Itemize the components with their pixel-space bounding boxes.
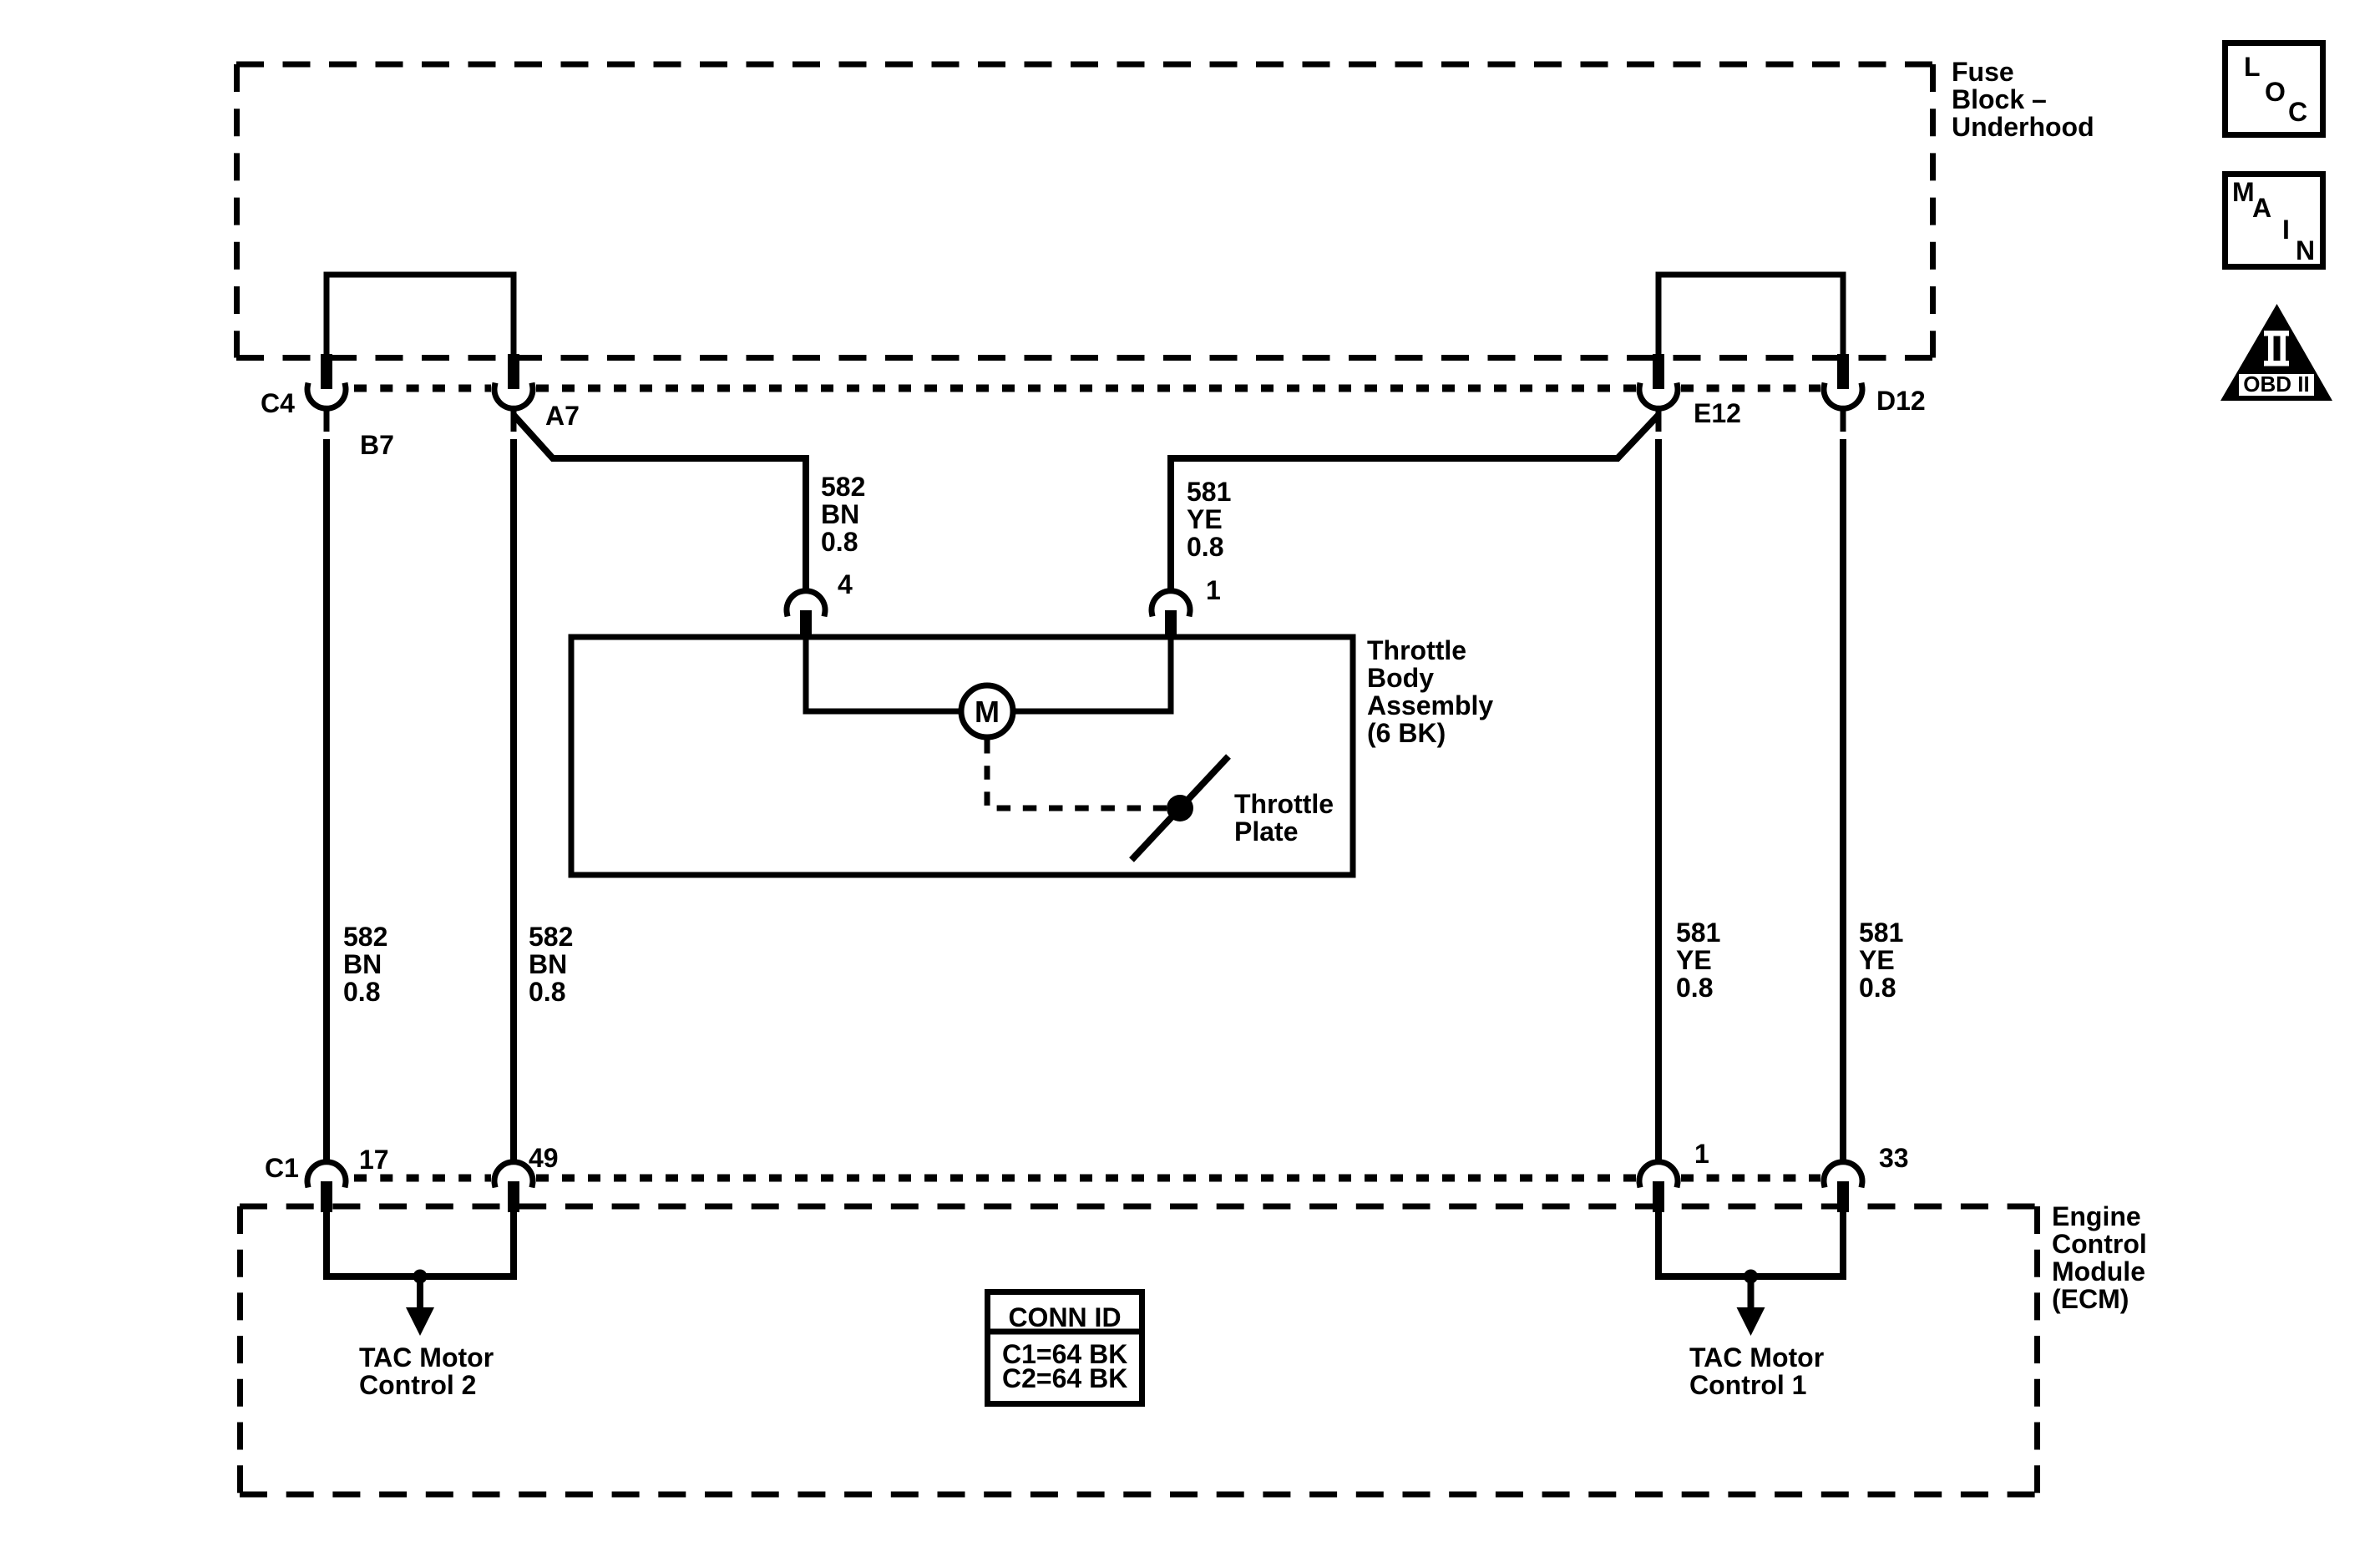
ECM dashed box [240, 1206, 2038, 1494]
svg-text:0.8: 0.8 [821, 527, 858, 557]
svg-text:581: 581 [1187, 477, 1231, 507]
pin D12 [1824, 354, 1862, 432]
wire label 581 YE 0.8 [1859, 917, 1903, 1003]
svg-text:0.8: 0.8 [529, 977, 565, 1007]
arrow to TAC Motor Control 1 [1737, 1276, 1765, 1336]
wire 582 BN branch A7 to throttle pin 4 [514, 415, 806, 593]
svg-text:N: N [2296, 235, 2315, 265]
pin B7 [307, 354, 346, 432]
fuse connector box left [327, 275, 514, 358]
ECM internal wires left junction [327, 1212, 514, 1276]
wire label 582 BN 0.8 [821, 472, 865, 557]
LOC icon [2226, 43, 2323, 135]
svg-text:4: 4 [838, 569, 853, 599]
svg-text:582: 582 [529, 922, 573, 952]
svg-text:(6 BK): (6 BK) [1367, 718, 1446, 748]
wire label 581 YE 0.8 [1187, 477, 1231, 562]
svg-text:C: C [2288, 97, 2307, 127]
svg-text:17: 17 [359, 1145, 389, 1175]
svg-text:A7: A7 [545, 401, 580, 431]
wire inside throttle body to motor [806, 639, 959, 711]
junction dot left [413, 1270, 428, 1284]
svg-text:I: I [2282, 215, 2290, 245]
svg-text:Control 1: Control 1 [1689, 1370, 1806, 1400]
OBD II icon [2220, 304, 2332, 401]
svg-text:TAC Motor: TAC Motor [1689, 1342, 1824, 1372]
arrow to TAC Motor Control 2 [406, 1276, 434, 1336]
motor linkage dashed line [987, 740, 1167, 808]
svg-text:0.8: 0.8 [1676, 973, 1713, 1003]
svg-text:B7: B7 [360, 430, 394, 460]
svg-text:Throttle: Throttle [1367, 635, 1466, 665]
svg-text:CONN ID: CONN ID [1008, 1302, 1121, 1332]
wire label 582 BN 0.8 [529, 922, 573, 1007]
wire label 582 BN 0.8 [343, 922, 387, 1007]
svg-text:Assembly: Assembly [1367, 690, 1493, 720]
wire 582 BN from B7 to ECM pin 17 [323, 439, 330, 1163]
MAIN icon [2226, 174, 2323, 267]
ECM pin 1 [1639, 1162, 1678, 1212]
svg-text:Control 2: Control 2 [359, 1370, 476, 1400]
ECM pin 33 [1824, 1162, 1862, 1212]
svg-text:BN: BN [821, 499, 859, 529]
svg-text:582: 582 [821, 472, 865, 502]
label Engine Control Module (ECM) [2052, 1201, 2147, 1314]
svg-text:BN: BN [343, 949, 382, 979]
svg-text:OBD II: OBD II [2243, 372, 2309, 397]
svg-text:O: O [2265, 77, 2286, 107]
svg-text:Fuse: Fuse [1952, 57, 2014, 87]
svg-text:581: 581 [1859, 917, 1903, 948]
svg-text:0.8: 0.8 [1187, 532, 1223, 562]
svg-text:Block –: Block – [1952, 84, 2047, 114]
throttle pin 4 [787, 591, 825, 639]
svg-text:Body: Body [1367, 663, 1434, 693]
svg-text:(ECM): (ECM) [2052, 1284, 2129, 1314]
wire label 581 YE 0.8 [1676, 917, 1720, 1003]
label Throttle Body Assembly (6 BK) [1367, 635, 1493, 748]
fuse connector box right [1658, 275, 1843, 358]
ECM internal wires right junction [1658, 1212, 1843, 1276]
svg-text:Engine: Engine [2052, 1201, 2141, 1231]
svg-text:C2=64 BK: C2=64 BK [1002, 1363, 1127, 1393]
svg-text:TAC Motor: TAC Motor [359, 1342, 494, 1372]
svg-text:Underhood: Underhood [1952, 112, 2094, 142]
svg-text:E12: E12 [1694, 398, 1741, 428]
svg-text:YE: YE [1676, 945, 1712, 975]
wire 581 YE from D12 to ECM pin 33 [1840, 439, 1846, 1163]
svg-text:M: M [2232, 177, 2255, 207]
svg-text:C4: C4 [261, 388, 295, 418]
wire 581 YE from E12 to ECM pin 1 [1655, 439, 1662, 1163]
svg-text:BN: BN [529, 949, 567, 979]
motor M [961, 685, 1013, 737]
CONN ID table [985, 1292, 1145, 1404]
svg-text:Control: Control [2052, 1229, 2147, 1259]
svg-text:D12: D12 [1876, 386, 1926, 416]
svg-text:0.8: 0.8 [343, 977, 380, 1007]
svg-text:A: A [2252, 193, 2271, 223]
connector C4 dotted line [354, 385, 1820, 392]
wire 582 BN from A7 to ECM pin 49 [510, 439, 517, 1163]
svg-text:581: 581 [1676, 917, 1720, 948]
ECM pin 17 [307, 1162, 346, 1212]
ECM pin 49 [494, 1162, 533, 1212]
svg-text:YE: YE [1859, 945, 1895, 975]
pin E12 [1639, 354, 1678, 432]
svg-text:YE: YE [1187, 504, 1223, 534]
junction dot right [1744, 1270, 1758, 1284]
svg-text:Module: Module [2052, 1256, 2145, 1287]
wire 581 YE branch E12 to throttle pin 1 [1171, 415, 1658, 593]
svg-text:1: 1 [1694, 1139, 1709, 1169]
svg-text:Throttle: Throttle [1234, 789, 1334, 819]
fuse block dashed box [236, 64, 1933, 358]
svg-text:C1: C1 [265, 1153, 299, 1183]
throttle plate [1132, 756, 1228, 860]
svg-text:Plate: Plate [1234, 816, 1298, 847]
label TAC Motor Control 1 [1689, 1342, 1824, 1400]
svg-text:49: 49 [529, 1143, 559, 1173]
svg-text:L: L [2244, 52, 2261, 82]
connector C1 dotted line [354, 1175, 1820, 1182]
svg-text:1: 1 [1206, 575, 1221, 605]
label TAC Motor Control 2 [359, 1342, 494, 1400]
pin A7 [494, 354, 533, 432]
svg-text:33: 33 [1879, 1143, 1909, 1173]
svg-text:582: 582 [343, 922, 387, 952]
svg-text:M: M [975, 695, 1000, 729]
label Throttle Plate [1234, 789, 1334, 847]
svg-text:0.8: 0.8 [1859, 973, 1896, 1003]
throttle pin 1 [1152, 591, 1190, 639]
throttle body assembly box [571, 637, 1353, 875]
